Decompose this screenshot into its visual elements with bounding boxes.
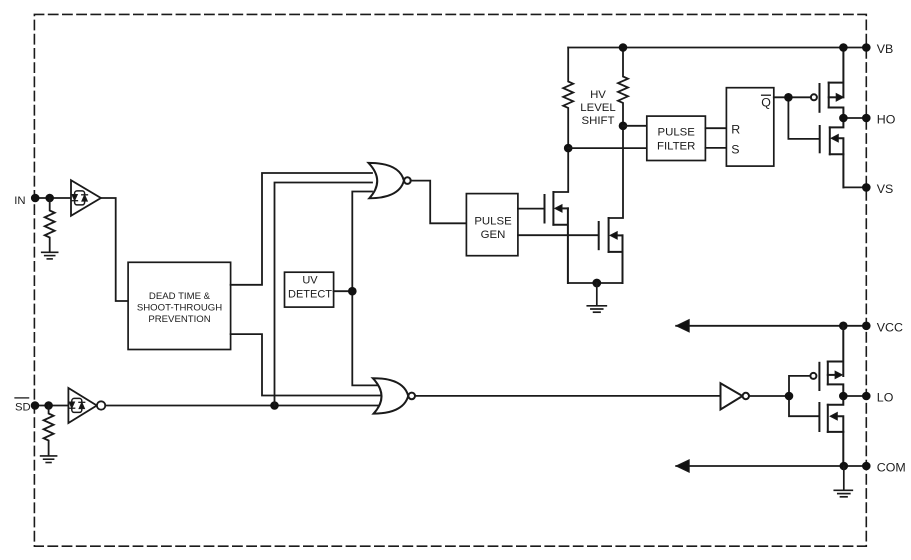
wire dead-time bottom output to NOR2 input 2 bbox=[231, 334, 382, 395]
pin IN label bbox=[14, 195, 25, 207]
pin COM label bbox=[877, 461, 906, 475]
svg-text:FILTER: FILTER bbox=[657, 141, 695, 153]
svg-text:DETECT: DETECT bbox=[288, 289, 332, 301]
node VS pin dot bbox=[862, 183, 871, 192]
wire pulse filter to latch S bbox=[705, 147, 726, 149]
wire NOR2 output to LO inverter bbox=[415, 395, 721, 397]
pin SD label (with overline) bbox=[15, 398, 31, 414]
node SD-net junction dot bbox=[270, 401, 279, 410]
svg-text:PULSE: PULSE bbox=[658, 127, 696, 139]
transistor M4 (HO low-side FET) bbox=[820, 118, 844, 187]
label HV LEVEL SHIFT bbox=[580, 89, 615, 127]
node inverter output junction dot bbox=[785, 392, 794, 401]
svg-text:VCC: VCC bbox=[877, 320, 903, 334]
wire VCC rail bbox=[676, 325, 866, 327]
wire SD to input buffer bbox=[35, 405, 69, 407]
input buffer U1 (Schmitt with clamp diodes) bbox=[71, 180, 101, 216]
ground (COM) bbox=[834, 466, 852, 497]
svg-text:LEVEL: LEVEL bbox=[580, 102, 615, 114]
resistor (SD pull-down) bbox=[44, 406, 54, 456]
wire NOR1 output to pulse gen bbox=[411, 181, 467, 224]
svg-text:SHIFT: SHIFT bbox=[582, 115, 615, 127]
node VB pin dot bbox=[862, 43, 871, 52]
wire right HV line down to M2 bbox=[609, 126, 623, 218]
ground (level shift) bbox=[587, 283, 606, 312]
wire left HV line down to M1 bbox=[553, 148, 568, 192]
svg-text:GEN: GEN bbox=[481, 229, 506, 241]
node SD pin dot bbox=[31, 401, 40, 410]
wire SD net up to NOR1 input 2 bbox=[275, 183, 373, 406]
wire R tap to pulse filter bbox=[623, 125, 647, 127]
svg-text:DEAD TIME &: DEAD TIME & bbox=[149, 291, 211, 302]
node VCC junction dot bbox=[839, 322, 848, 331]
node S-tap junction dot bbox=[564, 144, 573, 153]
svg-text:VS: VS bbox=[877, 182, 894, 196]
transistor M1 (level shift left NMOS) bbox=[545, 192, 568, 283]
transistor M3 (HO high-side FET) bbox=[811, 48, 844, 119]
node LO pin dot bbox=[862, 392, 871, 401]
resistor (IN pull-down) bbox=[45, 198, 55, 252]
latch U3 (RS, Qbar out) bbox=[726, 88, 773, 166]
svg-text:COM: COM bbox=[877, 461, 906, 475]
node source rail junction dot bbox=[592, 279, 601, 288]
wire HO node to pin bbox=[843, 117, 866, 119]
wire pulse filter to latch R bbox=[705, 127, 726, 129]
svg-text:SD: SD bbox=[15, 402, 31, 414]
node VB/M3 junction dot bbox=[839, 43, 848, 52]
arrow COM (left) bbox=[676, 460, 689, 472]
pin LO label bbox=[877, 391, 894, 405]
node SD junction dot bbox=[44, 401, 53, 410]
svg-text:LO: LO bbox=[877, 391, 894, 405]
node IN pin dot bbox=[31, 194, 40, 203]
wire COM rail bbox=[676, 465, 866, 467]
pin HO label bbox=[877, 113, 896, 127]
node COM pin dot bbox=[862, 462, 871, 471]
wire S tap to pulse filter bbox=[568, 147, 647, 149]
NOR gate G2 (low side) bbox=[373, 378, 415, 413]
wire UV net vertical (NOR1 input 3 / NOR2 input 1) bbox=[352, 192, 377, 386]
svg-text:PULSE: PULSE bbox=[474, 216, 512, 228]
node R-tap junction dot bbox=[619, 122, 628, 131]
svg-text:HO: HO bbox=[877, 113, 896, 127]
wire pulse gen to M2 gate bbox=[518, 234, 598, 236]
pin VS label bbox=[877, 182, 894, 196]
arrow VCC (left) bbox=[676, 320, 689, 332]
wire VB rail bbox=[568, 47, 866, 49]
svg-text:PREVENTION: PREVENTION bbox=[148, 314, 210, 325]
svg-text:Q: Q bbox=[761, 96, 771, 110]
svg-text:R: R bbox=[731, 122, 740, 136]
wire level-shift source rail bbox=[568, 282, 623, 284]
resistor (HV level shift, right) bbox=[618, 48, 628, 126]
svg-text:UV: UV bbox=[302, 275, 318, 287]
wire pulse gen to M1 gate bbox=[518, 208, 544, 210]
wire IN to input buffer bbox=[35, 197, 72, 199]
pulse filter block bbox=[647, 116, 706, 160]
transistor M6 (LO low-side FET) bbox=[819, 396, 843, 466]
pin VCC label bbox=[877, 320, 903, 334]
node VB/resistor junction dot bbox=[619, 43, 628, 52]
wire VS to pin bbox=[843, 186, 866, 188]
inverter U4 (LO driver) bbox=[721, 383, 750, 409]
transistor M5 (LO high-side FET) bbox=[810, 326, 843, 396]
resistor (HV level shift, left) bbox=[563, 48, 573, 149]
svg-text:IN: IN bbox=[14, 195, 25, 207]
node COM junction dot bbox=[840, 462, 849, 471]
UV detect block bbox=[285, 272, 334, 307]
wire dead-time top output to NOR1 input 1 bbox=[231, 173, 372, 285]
node VCC pin dot bbox=[862, 322, 871, 331]
wire input buffer to dead-time block bbox=[101, 198, 128, 301]
node UV junction dot bbox=[348, 287, 357, 296]
ground (SD pull-down) bbox=[41, 456, 57, 463]
ground (IN pull-down) bbox=[42, 252, 58, 259]
input inverting buffer U2 (Schmitt with clamp diodes) bbox=[68, 388, 105, 423]
node HO pin dot bbox=[862, 114, 871, 123]
node HO junction dot bbox=[839, 114, 848, 123]
wire LO node to pin bbox=[843, 395, 866, 397]
node IN junction dot bbox=[45, 194, 54, 203]
pulse gen block bbox=[466, 194, 518, 256]
wire inverter output to LO gates bbox=[749, 376, 818, 416]
pin VB label bbox=[877, 42, 894, 56]
node LO junction dot bbox=[839, 392, 848, 401]
svg-text:VB: VB bbox=[877, 42, 894, 56]
wire latch output to HO drivers bbox=[774, 97, 819, 139]
NOR gate G1 (high side) bbox=[369, 163, 411, 198]
transistor M2 (level shift right NMOS) bbox=[599, 218, 623, 283]
svg-text:SHOOT-THROUGH: SHOOT-THROUGH bbox=[137, 302, 222, 313]
wire SD buffer output to NOR2 (SD net) bbox=[105, 405, 378, 407]
svg-text:S: S bbox=[731, 143, 739, 157]
wire UV detect output bbox=[334, 290, 353, 292]
node latch output junction dot bbox=[784, 93, 793, 102]
dead time block bbox=[128, 262, 231, 349]
svg-text:HV: HV bbox=[590, 89, 606, 101]
